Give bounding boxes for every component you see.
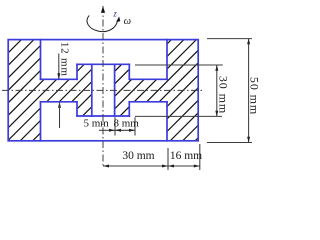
web bottom right	[129, 101, 167, 103]
left rim inner wall upper	[40, 40, 42, 80]
hub bottom	[77, 115, 129, 117]
svg-text:5 mm: 5 mm	[84, 118, 110, 130]
30mm vertical dim line	[216, 65, 218, 116]
50mm vertical dim line	[248, 39, 250, 143]
bottom 16mm dim line	[168, 165, 200, 167]
axis arrowhead	[101, 6, 105, 13]
ext line hub bottom right	[135, 115, 222, 117]
vertical rotation axis (dash-dot)	[102, 6, 104, 166]
hub top	[77, 63, 129, 65]
bottom 30mm right arrow	[162, 165, 168, 168]
part outline (blue)	[8, 40, 198, 141]
arrowheads gray	[57, 39, 250, 168]
dimension texts	[59, 42, 262, 162]
rotation arrowhead	[116, 16, 120, 22]
bottom 30mm dim line	[103, 165, 168, 167]
hub left wall upper	[76, 64, 78, 79]
web top right	[129, 78, 167, 80]
web bottom left	[41, 101, 78, 103]
50mm bottom ext line	[207, 142, 252, 144]
hub left wall lower	[76, 102, 78, 116]
section hatching (45 deg)	[0, 35, 301, 145]
outer rectangle	[8, 40, 198, 141]
50mm bottom arrow	[247, 137, 250, 143]
dimension lines (gray)	[59, 39, 252, 170]
12mm leader line lower	[59, 102, 61, 128]
12mm up arrow (web bottom)	[58, 102, 61, 108]
16mm left arrow	[168, 165, 174, 168]
svg-text:30 mm: 30 mm	[122, 150, 154, 162]
right rim inner wall upper	[166, 40, 168, 80]
svg-text:8 mm: 8 mm	[114, 118, 140, 130]
ext bar rim inner below	[167, 148, 169, 170]
ext bar right edge below	[199, 144, 201, 170]
bore left wall	[91, 64, 93, 116]
50mm top arrow	[247, 39, 250, 45]
horizontal centerline (dash-dot)	[2, 89, 204, 91]
ext line hub top right	[135, 64, 223, 66]
8mm right arrow	[129, 129, 135, 132]
svg-text:30 mm: 30 mm	[217, 76, 231, 114]
12mm down arrow	[57, 73, 60, 79]
5mm dim line	[99, 129, 115, 131]
8mm dim line	[115, 129, 135, 131]
bore right wall	[114, 64, 116, 116]
right rim inner wall lower	[166, 102, 168, 141]
left rim inner wall lower	[40, 102, 42, 141]
ext bar 8mm right	[134, 117, 136, 135]
hub right wall upper	[128, 64, 130, 79]
svg-text:z: z	[112, 8, 117, 18]
svg-text:50 mm: 50 mm	[247, 77, 261, 115]
web top left	[41, 78, 78, 80]
bottom 30mm left arrow	[103, 165, 109, 168]
svg-text:12 mm: 12 mm	[59, 42, 71, 77]
12mm leader line upper	[58, 54, 60, 80]
svg-text:16 mm: 16 mm	[170, 150, 202, 162]
8mm left arrow	[115, 129, 121, 132]
ext bar bore wall	[114, 117, 116, 135]
30mm bottom arrow	[215, 111, 218, 117]
hub right wall lower	[128, 102, 130, 116]
5mm right arrow	[109, 129, 115, 132]
16mm right arrow	[194, 165, 200, 168]
30mm top arrow	[215, 65, 218, 71]
50mm top ext line	[207, 38, 252, 40]
rotation arc (omega)	[87, 15, 118, 31]
svg-text:ω: ω	[124, 16, 131, 27]
